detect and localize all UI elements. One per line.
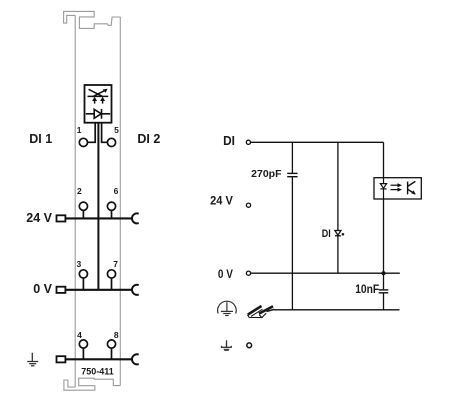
terminal 2 (79, 202, 87, 210)
bottom earth rail (274, 309, 400, 311)
svg-text:DI: DI (322, 228, 331, 240)
svg-text:0 V: 0 V (218, 267, 234, 281)
24V clamp contact (132, 213, 139, 223)
capacitor 10nF (379, 290, 389, 293)
terminal 8 (107, 340, 115, 348)
terminal 6 (107, 202, 115, 210)
terminal 5 (107, 138, 115, 146)
junction dot (381, 271, 385, 275)
node 24V (246, 203, 250, 207)
svg-text:24 V: 24 V (210, 194, 234, 208)
LED indicator box (85, 85, 112, 123)
capacitor 270pF (287, 173, 297, 176)
wire box to terminal 1 (88, 123, 96, 143)
diode DI (335, 231, 341, 236)
DIN rail earth symbol (248, 306, 275, 318)
terminal 3 (79, 270, 87, 278)
svg-text:750-411: 750-411 (81, 366, 114, 376)
svg-text:24 V: 24 V (26, 211, 52, 225)
emitter arrowhead (411, 190, 416, 194)
earth clamp contact (132, 354, 139, 364)
svg-text:DI 2: DI 2 (137, 132, 160, 146)
stem terminal 8 (111, 348, 113, 359)
svg-text:6: 6 (114, 186, 119, 196)
terminal 7 (107, 270, 115, 278)
svg-text:10nF: 10nF (355, 282, 379, 296)
svg-text:4: 4 (77, 330, 82, 340)
wire box to terminal 5 (102, 123, 108, 143)
0V terminal square (57, 287, 66, 293)
LED symbol (status LEDs) (88, 89, 109, 103)
module right wall (119, 17, 121, 386)
optocoupler U1 box (374, 178, 421, 199)
circled earth symbol (218, 301, 237, 315)
svg-text:5: 5 (114, 125, 119, 135)
svg-text:3: 3 (77, 259, 82, 269)
DI wire (251, 141, 384, 143)
24V rail (65, 217, 133, 219)
bottom functional earth symbol (221, 340, 232, 347)
node DI (246, 140, 250, 144)
0V rail (65, 289, 133, 291)
stem terminal 3 (82, 278, 84, 290)
optocoupler phototransistor (408, 181, 416, 194)
svg-text:270pF: 270pF (251, 168, 282, 180)
svg-text:2: 2 (77, 186, 82, 196)
svg-text:DI: DI (223, 133, 235, 148)
terminal 1 (79, 138, 87, 146)
asterisk mark (342, 233, 344, 236)
optocoupler branch wire lower (383, 199, 385, 289)
earth rail (65, 358, 132, 360)
stem terminal 7 (111, 278, 113, 290)
svg-text:7: 7 (113, 259, 118, 269)
270pF branch wire upper (291, 142, 293, 173)
earth terminal square (57, 356, 66, 362)
diode symbol in box (86, 109, 110, 119)
0V wire (251, 272, 400, 274)
svg-text:0 V: 0 V (33, 282, 52, 296)
earth ground symbol (27, 353, 38, 366)
node 0V (246, 271, 250, 275)
terminal 4 (79, 340, 87, 348)
node bottom (247, 343, 252, 348)
0V clamp contact (132, 285, 139, 295)
stem terminal 6 (111, 210, 113, 218)
24V terminal square (57, 215, 66, 221)
optocoupler LED (380, 178, 386, 199)
stem terminal 2 (82, 210, 84, 218)
optocoupler branch wire upper (383, 142, 385, 177)
270pF branch wire lower (291, 177, 293, 310)
module left wall (74, 15, 76, 387)
svg-text:DI 1: DI 1 (29, 132, 52, 146)
10nF lower wire (383, 293, 385, 310)
module housing bottom foot (64, 378, 120, 390)
module housing top profile (64, 11, 121, 28)
optocoupler light arrows (391, 185, 399, 189)
svg-text:8: 8 (114, 330, 119, 340)
svg-text:1: 1 (77, 125, 82, 135)
middle wire box down to 0V rail (97, 123, 99, 289)
DI threshold branch wire (337, 142, 339, 273)
stem terminal 4 (82, 348, 84, 359)
